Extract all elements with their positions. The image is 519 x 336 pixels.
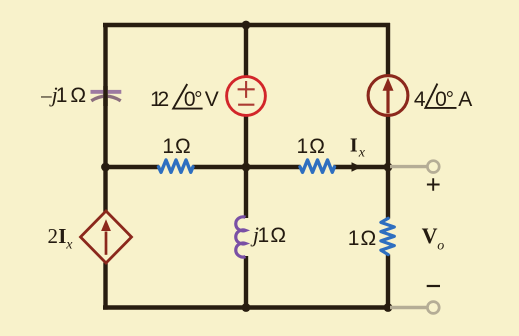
terminal wire upper (gray) (390, 165, 427, 168)
node top center (242, 21, 251, 30)
node bottom right (384, 303, 393, 312)
output plus sign (427, 178, 440, 191)
svg-text:A: A (458, 88, 472, 111)
wire center vertical bottom (244, 256, 248, 308)
resistor R3 value label 1 ohm (348, 227, 376, 250)
current source label 4/0 A (414, 84, 472, 111)
svg-text:2: 2 (47, 224, 58, 248)
wire right vertical bottom (386, 255, 390, 310)
svg-text:o: o (437, 239, 444, 254)
wire top horizontal (103, 23, 390, 27)
dependent source 2Ix diamond (81, 211, 132, 263)
node middle left (101, 163, 110, 172)
current Ix label (350, 135, 366, 161)
svg-text:1: 1 (297, 135, 309, 158)
voltage source minus sign (238, 104, 254, 106)
wire middle horizontal segment A (105, 165, 159, 169)
inductor value label j1 ohm (250, 222, 286, 247)
current source I1 circle (368, 76, 408, 116)
output minus sign (427, 285, 440, 287)
wire bottom horizontal (103, 305, 390, 309)
voltage source V1 circle (227, 77, 266, 116)
current Ix arrowhead on wire (352, 162, 362, 172)
wire center vertical middle (244, 116, 248, 219)
svg-text:x: x (65, 237, 73, 252)
resistor R1 (1 ohm, middle-left) zigzag (159, 160, 194, 172)
svg-text:Ω: Ω (270, 224, 286, 247)
wire middle horizontal segment C (334, 165, 389, 169)
inductor L (j1 ohm) coil (236, 217, 246, 257)
svg-text:4: 4 (414, 88, 426, 111)
output voltage label Vo (422, 223, 445, 253)
node middle center (242, 163, 251, 172)
svg-text:Ω: Ω (309, 135, 325, 158)
terminal circle upper (427, 161, 439, 173)
wire middle horizontal segment B (193, 165, 301, 169)
terminal circle lower (427, 302, 439, 314)
capacitor value label -j1 ohm (40, 82, 86, 107)
dependent source arrow (101, 219, 111, 255)
resistor R2 (1 ohm, middle-right) zigzag (300, 160, 335, 172)
svg-text:V: V (422, 223, 438, 248)
wire center vertical top (244, 23, 248, 77)
wire left vertical lower (103, 263, 107, 310)
capacitor C (-j1 ohm) plates (91, 90, 122, 101)
dependent source label 2Ix (47, 224, 73, 252)
node bottom center (242, 303, 251, 312)
svg-text:2: 2 (158, 88, 170, 111)
voltage source label 12/0 V (150, 84, 219, 111)
svg-text:Ω: Ω (175, 135, 191, 158)
wire right vertical top (386, 23, 390, 76)
resistor R2 value label 1 ohm (297, 135, 325, 158)
svg-text:I: I (350, 135, 358, 157)
svg-text:1: 1 (348, 227, 360, 250)
svg-text:V: V (205, 88, 219, 111)
svg-text:Ω: Ω (361, 227, 377, 250)
svg-text:1: 1 (162, 135, 174, 158)
svg-text:Ω: Ω (70, 84, 86, 107)
terminal wire lower (gray) (390, 306, 427, 309)
wire left vertical upper (103, 23, 107, 212)
wire over capacitor (103, 86, 107, 106)
resistor R3 (1 ohm, vertical right) zigzag (381, 218, 394, 254)
voltage source plus sign (238, 81, 255, 98)
node middle right (384, 163, 393, 172)
wire right vertical middle (386, 116, 390, 219)
svg-text:°: ° (194, 88, 202, 111)
resistor R1 value label 1 ohm (162, 135, 190, 158)
current source arrow (383, 78, 394, 114)
svg-text:1: 1 (56, 84, 68, 107)
svg-text:I: I (58, 224, 66, 248)
svg-text:x: x (358, 146, 366, 161)
svg-text:–: – (40, 83, 52, 107)
svg-text:1: 1 (258, 224, 270, 247)
